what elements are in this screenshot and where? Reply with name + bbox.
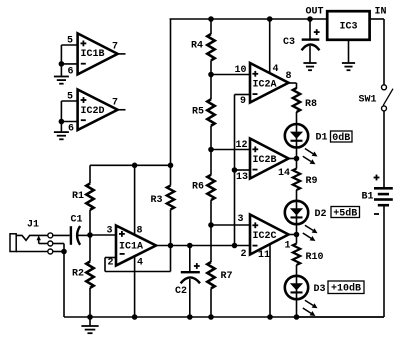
svg-text:8: 8 — [137, 226, 143, 237]
resistor R3 — [167, 165, 174, 245]
wire ladder tap to IC2C pin3 — [211, 224, 250, 226]
regulator IC3 — [327, 11, 369, 40]
resistor R6 — [207, 150, 214, 226]
wire bottom ground rail — [64, 316, 384, 318]
svg-text:R10: R10 — [306, 252, 324, 263]
label box 0dB — [331, 131, 353, 144]
ground C3 — [303, 46, 316, 70]
wire IC1A pin4 to ground rail — [134, 257, 136, 318]
svg-text:D2: D2 — [315, 209, 327, 220]
wire IC2A pin4 to top rail — [269, 19, 271, 74]
LED D1 — [285, 124, 318, 164]
svg-text:2: 2 — [241, 249, 247, 260]
svg-text:+10dB: +10dB — [331, 283, 361, 295]
svg-text:IC1A: IC1A — [119, 242, 143, 253]
capacitor C1 — [70, 226, 80, 245]
svg-text:IC2A: IC2A — [253, 79, 277, 90]
LED D3 — [285, 276, 318, 316]
wire IC1A feedback loop — [105, 246, 171, 272]
label B1 plus — [374, 175, 380, 181]
svg-text:7: 7 — [112, 42, 118, 53]
J1 sleeve contact circle — [48, 249, 53, 254]
svg-text:R7: R7 — [221, 271, 233, 282]
J1 tip contact circle — [48, 233, 53, 238]
node D3 bottom rail — [294, 314, 300, 320]
J1 switch contact circle — [48, 241, 53, 246]
svg-text:+5dB: +5dB — [333, 208, 357, 220]
node D2 IC2C output junction — [294, 232, 300, 238]
node rail R7 — [208, 314, 214, 320]
svg-text:IC2B: IC2B — [253, 155, 277, 166]
wire J1 tip contact — [16, 235, 48, 240]
node rail IC1A pin4 — [132, 314, 138, 320]
resistor R5 — [207, 75, 214, 150]
svg-text:OUT: OUT — [306, 7, 324, 18]
op-amp IC2C — [250, 215, 289, 255]
wire battery to bottom rail — [297, 207, 385, 318]
svg-text:R5: R5 — [192, 106, 204, 117]
node R5 R6 junction — [208, 147, 214, 153]
op-amp IC2D — [78, 90, 118, 131]
op-amp IC1A — [116, 226, 156, 266]
wire J1 sleeve — [16, 251, 48, 253]
op-amp IC2B — [250, 139, 289, 179]
label box +10dB — [328, 281, 364, 295]
svg-text:7: 7 — [112, 98, 118, 109]
svg-text:R4: R4 — [191, 40, 203, 51]
svg-text:IC1B: IC1B — [81, 49, 105, 60]
capacitor C3 — [302, 29, 320, 50]
node top rail pin4 — [267, 16, 273, 22]
wire IC2C pin11 to bottom rail — [269, 245, 271, 318]
svg-text:14: 14 — [278, 168, 290, 179]
svg-text:IC2C: IC2C — [253, 231, 277, 242]
svg-text:12: 12 — [236, 140, 248, 151]
wire IC1A pin8 to bias rail — [134, 165, 136, 235]
resistor R4 — [207, 19, 214, 75]
node R6 R7 junction — [208, 222, 214, 228]
node J1 ground junction — [61, 249, 67, 255]
svg-text:4: 4 — [273, 64, 279, 75]
label B1 minus — [374, 213, 379, 215]
op-amp IC1B — [78, 33, 118, 74]
resistor R1 — [86, 165, 93, 235]
svg-text:IC3: IC3 — [340, 22, 358, 33]
wire SW1 to battery — [383, 111, 385, 187]
J1 switch arrow — [37, 235, 48, 243]
wire IC1A output — [156, 245, 250, 247]
wire IC2A pin9 corner — [235, 95, 251, 246]
svg-text:6: 6 — [68, 124, 74, 135]
wire positive supply top rail — [170, 18, 327, 20]
wire top rail IC3 to IN corner — [371, 19, 384, 85]
wire bias rail — [90, 164, 171, 166]
node rail C2 — [187, 314, 193, 320]
resistor R10 — [293, 235, 300, 276]
svg-text:4: 4 — [137, 257, 143, 268]
wire IC1B pin5 to ground node — [61, 45, 77, 64]
node OUT — [307, 16, 313, 22]
jack J1 body — [10, 234, 16, 252]
svg-text:R6: R6 — [192, 181, 204, 192]
wire D3 to bottom rail — [296, 276, 298, 317]
wire ladder tap to IC2A pin10 — [211, 74, 250, 76]
svg-text:R3: R3 — [151, 195, 163, 206]
svg-text:3: 3 — [107, 226, 113, 237]
capacitor C2 — [181, 246, 200, 318]
label box +5dB — [331, 207, 360, 220]
svg-text:C2: C2 — [175, 286, 187, 297]
svg-text:J1: J1 — [27, 220, 39, 231]
wire J1 sleeve to node — [53, 251, 64, 253]
wire IC2C output — [289, 234, 297, 236]
svg-text:2: 2 — [108, 257, 114, 268]
node bus pin2 junction — [232, 243, 238, 249]
wire IC2D pin5 to ground node — [61, 101, 77, 122]
resistor R9 — [293, 159, 300, 235]
svg-text:10: 10 — [235, 65, 247, 76]
node bias rail pin8 — [132, 163, 138, 169]
svg-text:8: 8 — [286, 71, 292, 82]
wire bus to IC2B pin13 — [235, 169, 251, 171]
svg-text:3: 3 — [238, 214, 244, 225]
svg-text:C1: C1 — [71, 215, 83, 226]
svg-text:R9: R9 — [306, 176, 318, 187]
ground IC2D — [54, 122, 69, 140]
wire IC2A output to R8 — [289, 83, 297, 89]
resistor R8 — [293, 88, 300, 159]
svg-text:SW1: SW1 — [359, 95, 377, 106]
svg-text:9: 9 — [240, 96, 246, 107]
node R3 feedback output junction — [168, 243, 174, 249]
wire C1 to input node — [77, 234, 90, 236]
battery B1 — [374, 187, 393, 207]
svg-text:R8: R8 — [305, 99, 317, 110]
switch SW1 — [382, 85, 394, 111]
node top rail R4 — [208, 16, 214, 22]
node rail R2 — [87, 314, 93, 320]
wire J1 tip to C1 — [53, 234, 70, 236]
svg-text:IN: IN — [375, 7, 387, 18]
node IC2D inputs junction — [59, 119, 65, 125]
wire IC1B output stub — [118, 53, 126, 55]
ground IC3 — [342, 40, 355, 70]
ground IC1B — [54, 64, 69, 84]
node R4 R5 junction — [208, 72, 214, 78]
svg-text:11: 11 — [258, 250, 270, 261]
ground bottom rail — [81, 317, 98, 333]
node bias rail R3 — [168, 163, 174, 169]
wire J1 switch to sleeve node — [53, 244, 64, 252]
svg-text:1: 1 — [285, 240, 291, 251]
resistor R2 — [86, 235, 93, 317]
resistor R7 — [207, 225, 214, 317]
node C2 junction — [187, 243, 193, 249]
svg-text:R1: R1 — [72, 191, 84, 202]
node input bias junction — [87, 232, 93, 238]
svg-text:D3: D3 — [314, 284, 326, 295]
wire input node to IC1A pin3 — [90, 234, 116, 236]
wire J1 node down to bottom rail — [63, 252, 65, 318]
node D1 IC2B output junction — [294, 156, 300, 162]
wire IC2D output stub — [118, 109, 126, 111]
svg-text:C3: C3 — [283, 37, 295, 48]
node IC1B inputs junction — [59, 61, 65, 67]
svg-text:D1: D1 — [316, 133, 328, 144]
svg-text:R2: R2 — [72, 268, 84, 279]
node bus pin13 junction — [232, 167, 238, 173]
wire V+ left drop — [170, 19, 172, 165]
node rail IC2C pin11 — [267, 314, 273, 320]
svg-text:IC2D: IC2D — [81, 106, 105, 117]
LED D2 — [285, 201, 318, 241]
op-amp IC2A — [250, 63, 289, 103]
wire OUT node to C3 — [309, 19, 311, 39]
wire IC2B output — [289, 158, 297, 160]
svg-text:13: 13 — [236, 172, 248, 183]
svg-text:B1: B1 — [362, 192, 374, 203]
wire ladder tap to IC2B pin12 — [211, 149, 250, 151]
svg-text:0dB: 0dB — [332, 132, 350, 144]
